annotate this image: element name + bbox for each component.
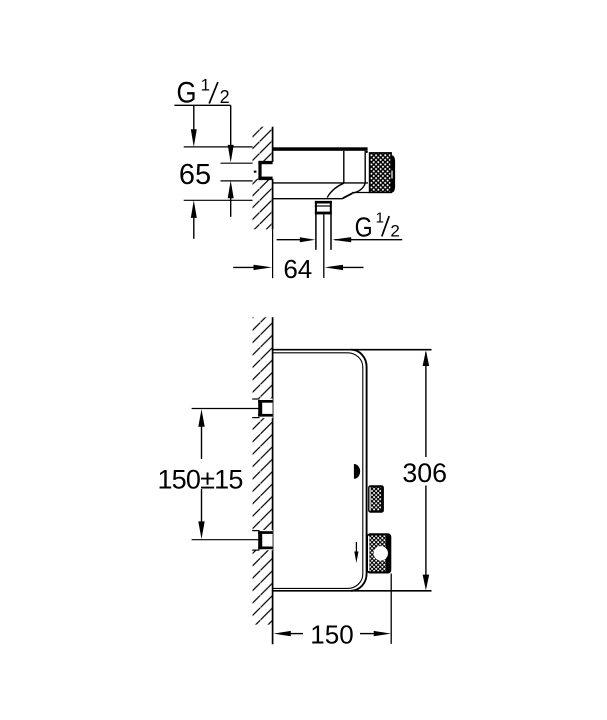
svg-text:2: 2 — [390, 222, 399, 241]
svg-text:306: 306 — [402, 458, 447, 488]
svg-text:65: 65 — [179, 159, 211, 191]
svg-text:150±15: 150±15 — [157, 464, 242, 494]
svg-text:150: 150 — [310, 620, 353, 650]
svg-text:1: 1 — [201, 75, 210, 94]
svg-text:1: 1 — [376, 209, 384, 226]
svg-text:2: 2 — [220, 87, 230, 107]
svg-text:G: G — [355, 211, 373, 242]
svg-text:64: 64 — [283, 254, 312, 284]
